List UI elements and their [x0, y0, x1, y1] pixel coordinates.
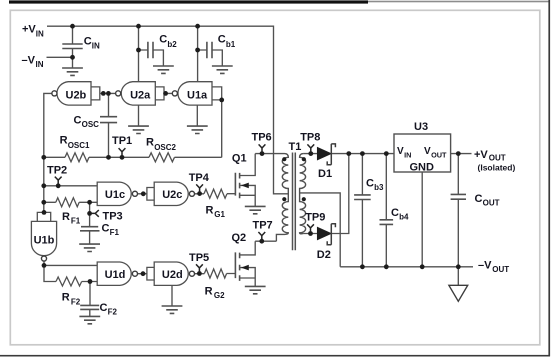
svg-text:TP7: TP7 [253, 220, 273, 232]
svg-text:C: C [218, 34, 226, 46]
svg-text:R: R [62, 292, 70, 304]
svg-text:OUT: OUT [431, 151, 447, 160]
svg-text:R: R [62, 211, 70, 223]
svg-text:IN: IN [92, 41, 100, 50]
svg-text:TP9: TP9 [305, 211, 325, 223]
svg-text:U2d: U2d [162, 269, 183, 281]
svg-text:U2c: U2c [162, 189, 182, 201]
svg-text:Q1: Q1 [232, 152, 247, 164]
svg-text:D2: D2 [317, 249, 331, 261]
svg-text:+V: +V [474, 149, 488, 161]
svg-text:U1d: U1d [105, 269, 126, 281]
svg-text:TP1: TP1 [112, 135, 132, 147]
svg-text:F1: F1 [110, 228, 120, 237]
svg-text:IN: IN [36, 60, 44, 69]
svg-text:C: C [102, 223, 110, 235]
svg-text:F2: F2 [108, 308, 118, 317]
svg-text:U2b: U2b [66, 90, 87, 102]
svg-text:–V: –V [22, 54, 36, 66]
svg-text:OSC2: OSC2 [154, 143, 176, 152]
svg-text:R: R [206, 204, 214, 216]
svg-text:U2a: U2a [130, 90, 151, 102]
svg-text:b3: b3 [374, 183, 384, 192]
svg-text:OSC1: OSC1 [68, 141, 90, 150]
svg-text:R: R [205, 285, 213, 297]
svg-text:TP4: TP4 [189, 172, 210, 184]
svg-text:C: C [366, 178, 374, 190]
svg-text:U1b: U1b [34, 235, 55, 247]
svg-text:–V: –V [478, 259, 492, 271]
svg-text:U1c: U1c [105, 189, 125, 201]
svg-text:R: R [146, 137, 154, 149]
svg-text:OUT: OUT [492, 265, 509, 274]
svg-text:F2: F2 [71, 298, 81, 307]
svg-text:C: C [84, 36, 92, 48]
svg-text:U3: U3 [414, 121, 428, 133]
svg-text:TP5: TP5 [189, 252, 209, 264]
svg-text:+V: +V [22, 24, 36, 36]
svg-text:C: C [475, 193, 483, 205]
svg-text:Q2: Q2 [232, 232, 247, 244]
svg-text:V: V [397, 146, 404, 157]
svg-text:G1: G1 [214, 210, 225, 219]
svg-text:b1: b1 [226, 40, 236, 49]
svg-text:(Isolated): (Isolated) [478, 163, 516, 173]
svg-text:b2: b2 [167, 40, 177, 49]
svg-text:TP6: TP6 [252, 132, 272, 144]
svg-text:U1a: U1a [187, 90, 208, 102]
svg-text:IN: IN [36, 29, 44, 38]
svg-text:C: C [100, 302, 108, 314]
svg-text:IN: IN [404, 151, 411, 160]
svg-text:b4: b4 [399, 213, 409, 222]
svg-text:C: C [159, 34, 167, 46]
svg-text:TP8: TP8 [300, 131, 320, 143]
svg-text:G2: G2 [214, 291, 225, 300]
svg-text:V: V [424, 146, 431, 157]
svg-text:OSC: OSC [82, 120, 100, 129]
svg-text:OUT: OUT [483, 199, 500, 208]
svg-text:TP3: TP3 [103, 211, 123, 223]
svg-text:GND: GND [410, 162, 435, 174]
svg-text:R: R [60, 134, 68, 146]
svg-text:C: C [391, 207, 399, 219]
svg-text:F1: F1 [71, 216, 81, 225]
svg-text:OUT: OUT [489, 154, 506, 163]
svg-text:C: C [74, 115, 82, 127]
svg-text:TP2: TP2 [47, 165, 67, 177]
svg-text:D1: D1 [318, 168, 332, 180]
